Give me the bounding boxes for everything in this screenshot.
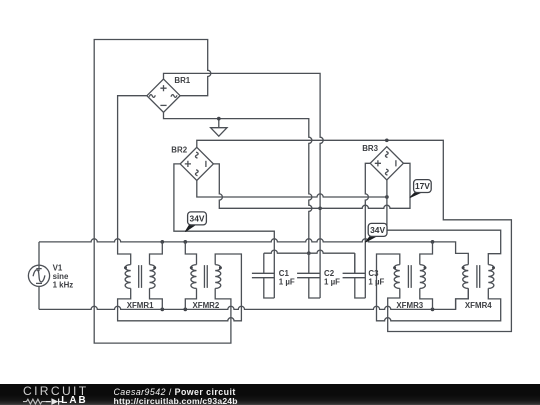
junction BR3 AC-bottom at node: [385, 195, 389, 199]
wire BR2 AC-top to BR3 AC-top bus: [197, 140, 512, 331]
bridge rectifier BR1: [147, 79, 180, 112]
wire BR1 plus (top) down right side to C2 bottom node: [164, 73, 324, 298]
svg-text:XFMR2: XFMR2: [193, 301, 220, 310]
svg-text:XFMR4: XFMR4: [465, 301, 492, 310]
CircuitLab logo: [23, 386, 89, 397]
capacitor C3: [343, 253, 366, 298]
transformer XFMR1: [124, 265, 156, 289]
wire BR2 plus (left) down to 34V node and C1 bottom: [174, 164, 274, 298]
wire XFMR4 left bottom to rail end: [456, 288, 469, 309]
junction on rail at XFMR3 right top: [431, 240, 435, 244]
footer credit text: [114, 387, 236, 397]
svg-text:1 µF: 1 µF: [279, 278, 295, 287]
logo diode: [46, 398, 63, 404]
label C1 1uF: [279, 269, 295, 286]
wire BR2 minus (right) to BR3 minus bus: [213, 163, 410, 208]
junction on rail at XFMR2 left top: [183, 240, 187, 244]
ground: [211, 119, 227, 137]
wire BR3 AC-left down to rail / C3 bottom: [365, 163, 370, 298]
wire XFMR2 right top to XFMR1 left bottom link: [118, 254, 242, 321]
capacitor C1: [252, 253, 274, 298]
wire BR1 minus (bottom) to ground rail and C2 top: [164, 112, 312, 253]
svg-text:1 µF: 1 µF: [368, 278, 384, 287]
wire V1 minus to bottom rail: [38, 286, 40, 309]
junction BR3 AC-top tap: [385, 138, 389, 142]
voltage source V1: [28, 265, 49, 286]
label C3 1uF: [368, 269, 384, 286]
label BR2: [171, 146, 187, 155]
wire XFMR3 left top via left riser to XFMR4 right bottom: [377, 254, 501, 321]
svg-text:XFMR3: XFMR3: [396, 301, 423, 310]
svg-text:17V: 17V: [415, 181, 430, 191]
transformer XFMR3: [393, 265, 426, 289]
label XFMR2: [193, 301, 220, 310]
junction bottom rail XFMR2 left: [183, 308, 187, 312]
label XFMR3: [396, 301, 423, 310]
wire XFMR3 right top to rail: [420, 242, 433, 265]
svg-text:BR3: BR3: [362, 144, 378, 153]
voltage label 17V on BR3 minus: [410, 180, 431, 198]
svg-text:XFMR1: XFMR1: [127, 301, 154, 310]
wire BR3 AC-bottom down to XFMR4 right top: [387, 180, 501, 265]
wire XFMR1 right bottom to rail: [150, 288, 163, 309]
bridge rectifier BR3: [370, 147, 403, 180]
label XFMR4: [465, 301, 492, 310]
junction on rail at XFMR1 right top: [160, 240, 164, 244]
junction bottom rail XFMR3 right: [431, 308, 435, 312]
svg-text:1 kHz: 1 kHz: [53, 280, 74, 289]
footer bar: [0, 384, 540, 405]
transformer XFMR2: [190, 265, 222, 289]
wire XFMR2 left top to rail: [185, 242, 196, 265]
wire V1 plus to top rail: [38, 242, 40, 265]
junction bottom rail XFMR1 right: [160, 308, 164, 312]
wire BR1 AC-right to top-left loop: [94, 40, 231, 344]
capacitor C2: [297, 253, 320, 298]
wire C1 top to cap rail (ground net): [264, 250, 355, 253]
voltage label 34V on C3/rail node: [365, 223, 387, 242]
label C2 1uF: [324, 269, 340, 286]
svg-text:BR2: BR2: [171, 146, 187, 155]
svg-text:1 µF: 1 µF: [324, 278, 340, 287]
junction C2 top at ground net rail: [307, 251, 311, 255]
label V1 sine 1 kHz: [53, 264, 74, 290]
wire C3 top lead corner: [354, 253, 356, 273]
logo resistor squiggle: [23, 399, 46, 404]
wire XFMR2 left bottom to rail: [185, 288, 196, 309]
svg-text:34V: 34V: [370, 225, 385, 235]
label XFMR1: [127, 301, 154, 310]
svg-text:BR1: BR1: [174, 76, 190, 85]
voltage label 34V on C1 node: [185, 212, 206, 232]
wire BR1 AC-left to XFMR1 left top: [118, 96, 147, 265]
wire XFMR1 right top to rail: [150, 242, 163, 265]
bridge rectifier BR2: [180, 147, 213, 180]
junction ground tap: [217, 117, 221, 121]
wire top primary rail (node A): [39, 239, 468, 265]
label BR3: [362, 144, 378, 153]
wire XFMR3 right bottom to rail: [420, 288, 433, 309]
svg-text:34V: 34V: [190, 213, 205, 223]
wire BR2 AC-bottom to BR3 AC-bottom: [197, 181, 387, 198]
wire bottom secondary rail (node B): [39, 288, 468, 309]
transformer XFMR4: [462, 265, 495, 289]
label BR1: [174, 76, 190, 85]
junction C2 bottom wire at minus bus: [318, 206, 322, 210]
